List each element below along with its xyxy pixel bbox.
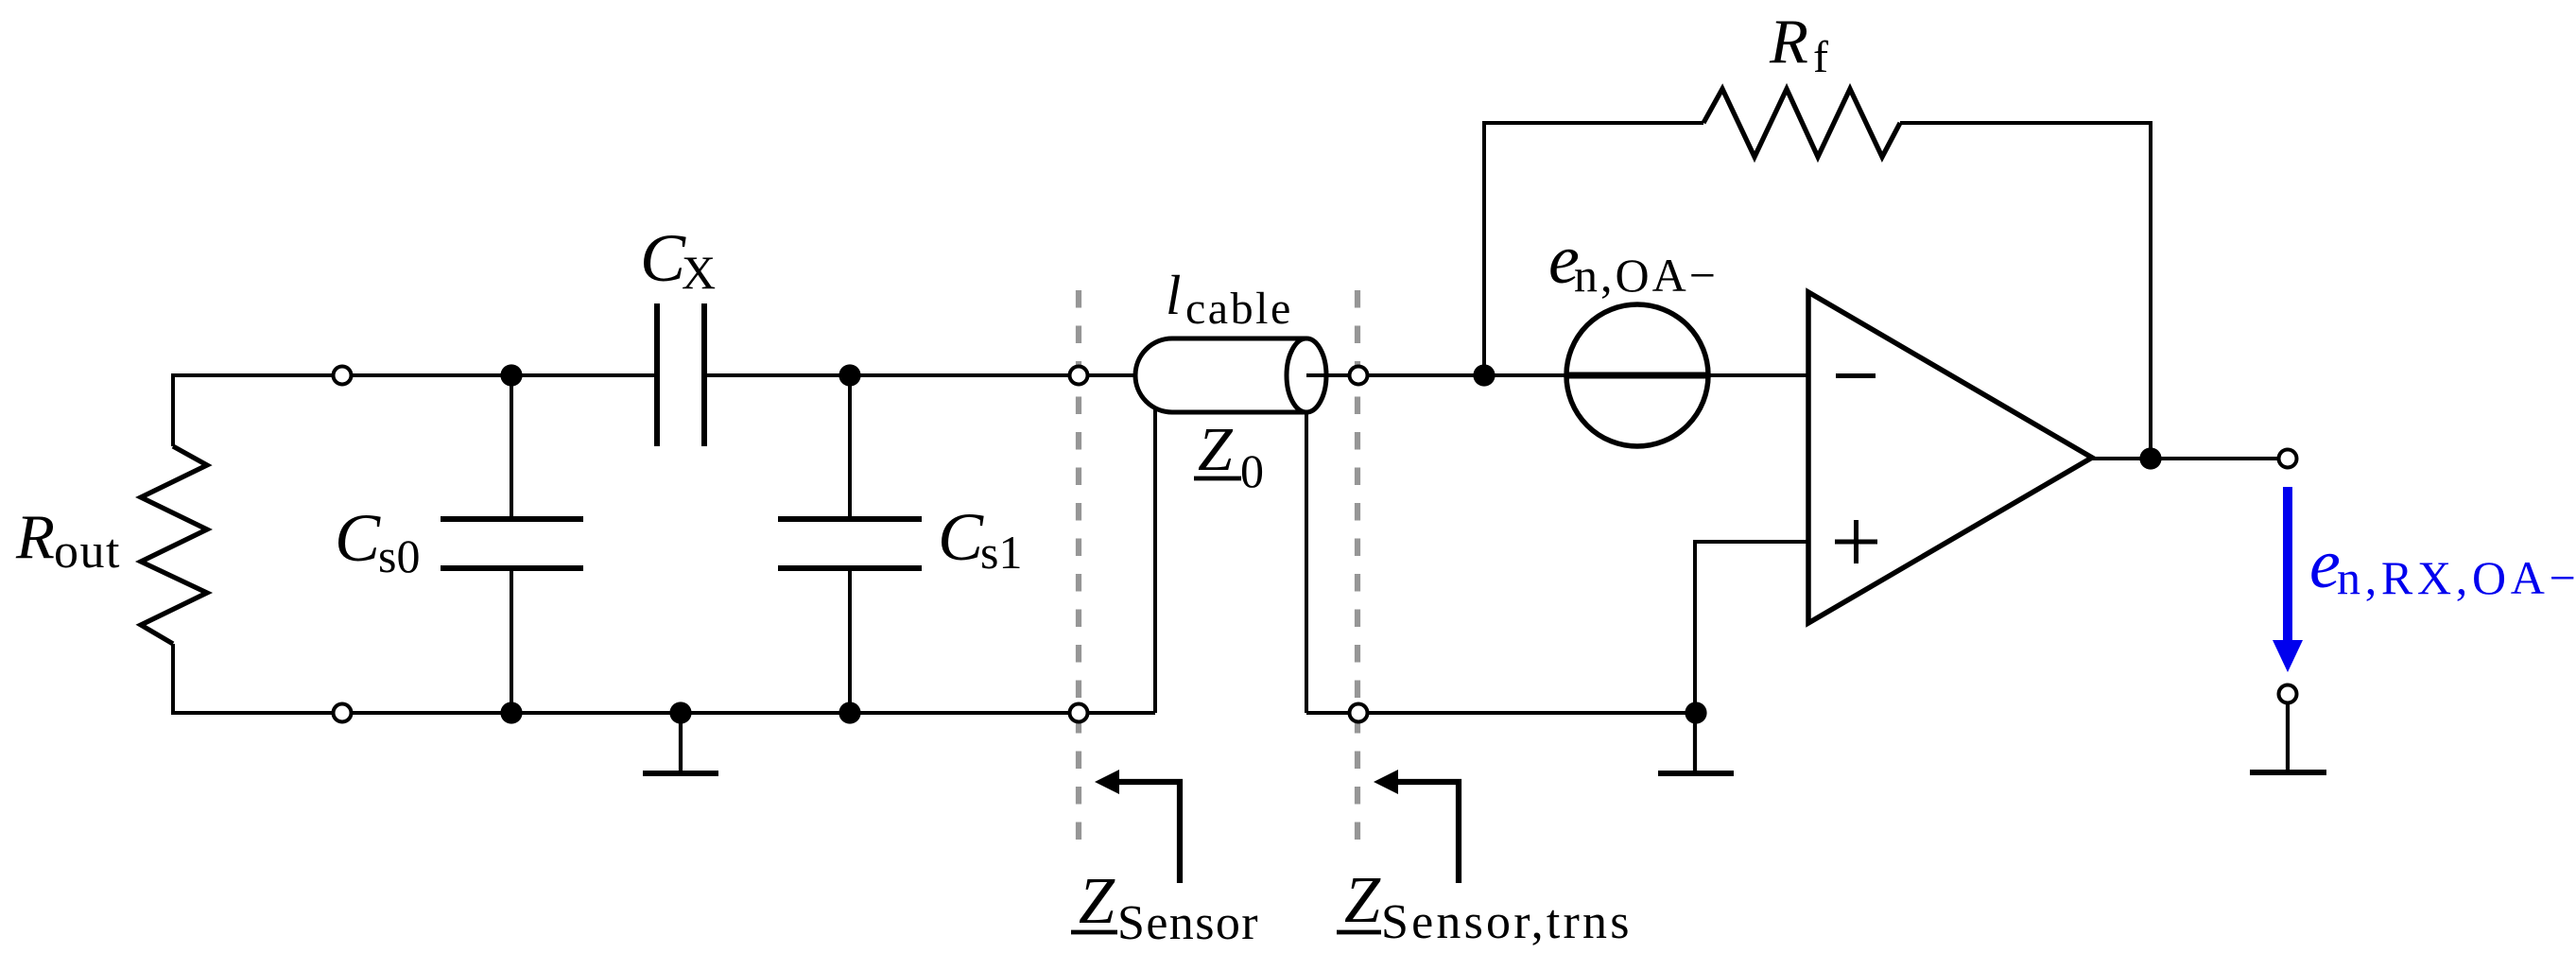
wire top rail mid (704, 373, 1172, 377)
junction dot feedback tap (1473, 364, 1495, 386)
terminal sensor top (1070, 367, 1088, 385)
svg-text:out: out (54, 525, 121, 579)
capacitor C_X (657, 303, 704, 446)
svg-text:cable: cable (1185, 284, 1293, 334)
svg-text:C: C (938, 499, 984, 575)
noise source e_n,OA- circle (1566, 304, 1708, 446)
svg-text:Z: Z (1344, 864, 1381, 937)
wire top rail right of cable (1306, 373, 1808, 377)
node Z_Sensor,trns reference plane (dashed) (1355, 290, 1360, 840)
wire cable shield left (1153, 407, 1157, 713)
terminal output ground (2279, 685, 2297, 703)
terminal trns bottom (1350, 704, 1368, 722)
junction dot output feedback (2139, 447, 2161, 469)
svg-text:0: 0 (1240, 444, 1264, 497)
underline of Z_0 (1194, 476, 1241, 481)
junction dot ground node (669, 702, 691, 723)
underline of Z_Sensor (1071, 930, 1117, 935)
wire C_s0 branch (510, 375, 513, 713)
ground at + input (1693, 713, 1697, 771)
ground at C_X node (643, 713, 718, 773)
svg-text:f: f (1813, 32, 1828, 82)
capacitor C_s0 (441, 519, 583, 568)
wire cable output stub (1306, 373, 1358, 377)
node Z_Sensor reference plane (dashed) (1076, 290, 1081, 840)
wire bottom rail left (173, 644, 1155, 713)
svg-text:R: R (1769, 7, 1808, 77)
junction dot C_s0 bottom (500, 702, 522, 723)
terminal output (2279, 450, 2297, 468)
ground at output port (2286, 704, 2290, 770)
svg-text:Sensor,trns: Sensor,trns (1381, 895, 1633, 949)
svg-text:e: e (2309, 526, 2341, 603)
svg-text:X: X (682, 246, 716, 299)
svg-text:C: C (335, 500, 381, 576)
transmission line cable body (1135, 338, 1306, 412)
transmission line cable end ellipse (1287, 338, 1326, 412)
junction dot + input ground (1685, 702, 1706, 723)
terminal trns top (1350, 367, 1368, 385)
junction dot C_s0 top (500, 364, 522, 386)
svg-text:n,OA−: n,OA− (1574, 249, 1719, 302)
junction dot C_s1 top (838, 364, 860, 386)
svg-text:s1: s1 (980, 526, 1022, 579)
resistor R_out (141, 446, 207, 644)
svg-text:n,RX,OA−: n,RX,OA− (2337, 551, 2576, 604)
wire top rail left (173, 375, 657, 446)
resistor R_f (1703, 89, 1900, 157)
op-amp U1 (1808, 292, 2092, 623)
svg-text:s0: s0 (378, 529, 420, 582)
wire bottom rail right (1306, 711, 1696, 715)
wire cable shield right (1305, 412, 1308, 713)
terminal top left (334, 367, 352, 385)
measurement arrow Z_Sensor (1117, 782, 1180, 883)
svg-text:R: R (15, 502, 55, 572)
blue arrow e_n,RX,OA- (2283, 487, 2292, 647)
wire op-amp output (2092, 457, 2288, 460)
wire C_s1 branch (848, 375, 852, 713)
svg-text:C: C (640, 220, 686, 296)
terminal sensor bottom (1070, 704, 1088, 722)
capacitor C_s1 (778, 519, 922, 568)
junction dot C_s1 bottom (838, 702, 860, 723)
op-amp minus sign (1836, 373, 1876, 378)
wire op-amp + input (1695, 542, 1808, 713)
svg-text:Z: Z (1079, 865, 1115, 938)
wire feedback loop (1484, 123, 2151, 459)
noise source diameter line (1565, 373, 1711, 379)
svg-text:Z: Z (1198, 415, 1234, 484)
terminal bottom left (334, 704, 352, 722)
underline of Z_Sensor,trns (1337, 930, 1381, 935)
svg-text:Sensor: Sensor (1117, 896, 1259, 950)
measurement arrow Z_Sensor,trns (1396, 782, 1459, 883)
svg-text:l: l (1166, 264, 1181, 326)
op-amp plus sign (1835, 520, 1877, 563)
